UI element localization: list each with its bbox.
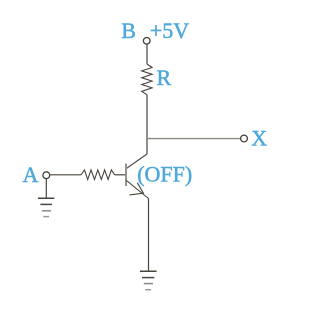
ground (node A) bar 1 <box>38 197 54 199</box>
ground (emitter) bar 1 <box>140 270 157 272</box>
svg-text:B: B <box>121 18 136 43</box>
node X terminal <box>241 135 248 142</box>
wire resistor to collector junction <box>146 95 148 139</box>
ground (emitter) bar 3 <box>144 283 153 285</box>
node B terminal <box>143 38 150 45</box>
wire emitter to ground <box>148 199 150 272</box>
wire base resistor to transistor base <box>115 174 126 176</box>
ground (node A) bar 2 <box>40 203 52 205</box>
wire A to ground <box>45 179 47 199</box>
svg-text:+5V: +5V <box>150 18 189 43</box>
wire junction to transistor collector <box>146 139 148 154</box>
node A terminal <box>43 172 50 179</box>
transistor Q1 base bar <box>125 164 127 186</box>
ground (node A) bar 4 <box>43 216 49 218</box>
transistor Q1 emitter lead <box>126 180 148 198</box>
ground (emitter) bar 2 <box>142 277 154 279</box>
svg-text:X: X <box>251 125 267 150</box>
svg-text:R: R <box>157 65 172 90</box>
transistor Q1 emitter arrow <box>130 183 144 195</box>
base resistor <box>81 170 115 180</box>
wire B to resistor R <box>146 44 148 64</box>
ground (node A) bar 3 <box>42 210 51 212</box>
wire junction to output X <box>147 138 241 140</box>
transistor Q1 collector lead <box>126 154 147 169</box>
wire A to base resistor <box>50 174 81 176</box>
svg-text:(OFF): (OFF) <box>137 161 192 186</box>
svg-text:A: A <box>23 162 39 187</box>
resistor R <box>142 64 152 95</box>
ground (emitter) bar 4 <box>145 289 151 291</box>
